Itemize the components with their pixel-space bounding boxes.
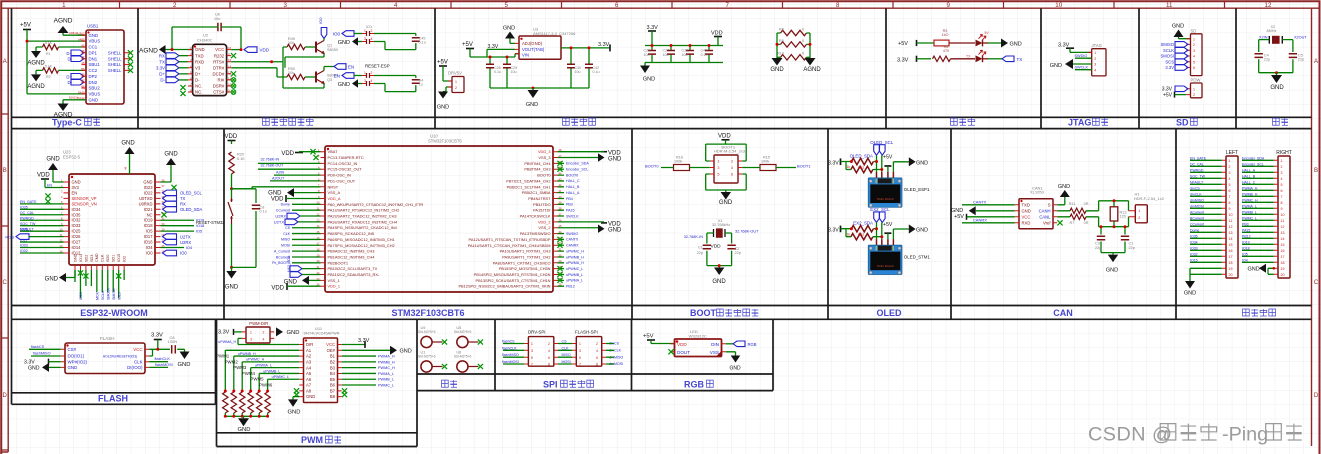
svg-text:uPWMC_L: uPWMC_L bbox=[566, 267, 583, 271]
svg-text:2: 2 bbox=[371, 71, 373, 75]
svg-text:3: 3 bbox=[1193, 49, 1195, 53]
wire VDD to pin2 loop bbox=[706, 140, 747, 161]
transistor Q3 S8050 bbox=[315, 72, 317, 83]
wire R8-R10 side rails bbox=[777, 33, 810, 58]
wire switch to ground node bbox=[231, 224, 233, 267]
resistor R21 pullup bbox=[851, 226, 873, 232]
svg-text:B5: B5 bbox=[330, 377, 336, 382]
svg-text:A2OUT: A2OUT bbox=[272, 176, 285, 180]
resistor R50 10k bbox=[287, 74, 305, 79]
svg-text:CANRX: CANRX bbox=[973, 218, 987, 223]
sheet row letters bbox=[1, 114, 8, 450]
svg-text:4: 4 bbox=[371, 37, 373, 41]
svg-text:RXD: RXD bbox=[195, 59, 204, 64]
svg-text:IO26: IO26 bbox=[72, 234, 82, 239]
svg-text:MOSI: MOSI bbox=[281, 244, 290, 248]
svg-text:PC13-TAMPER-RTC: PC13-TAMPER-RTC bbox=[328, 155, 364, 160]
svg-text:S: S bbox=[1048, 202, 1051, 207]
svg-text:RIGHT: RIGHT bbox=[1276, 150, 1292, 156]
ground GND (reset jumper) bbox=[352, 79, 358, 87]
svg-text:IO33: IO33 bbox=[72, 223, 82, 228]
svg-text:R11: R11 bbox=[1069, 202, 1076, 206]
no-connect DOUT bbox=[668, 349, 673, 354]
svg-text:R7: R7 bbox=[1070, 221, 1075, 225]
wire RTS to R49 bbox=[231, 47, 287, 62]
wire +5V to DRV5V bbox=[443, 66, 452, 92]
wire GND bottom to AGND bbox=[63, 100, 86, 104]
svg-text:3.3V: 3.3V bbox=[828, 228, 839, 234]
svg-text:C1: C1 bbox=[698, 245, 703, 249]
svg-text:PA4SPI1_NSSUSART2_CKADC12_IN4: PA4SPI1_NSSUSART2_CKADC12_IN4 bbox=[328, 225, 398, 230]
svg-text:3: 3 bbox=[718, 166, 720, 170]
svg-text:4: 4 bbox=[1094, 68, 1096, 72]
svg-text:20: 20 bbox=[1281, 273, 1285, 277]
wire R20 to NRST node bbox=[231, 174, 233, 189]
capacitor C6 100N bbox=[172, 345, 176, 353]
svg-text:22p: 22p bbox=[1298, 58, 1304, 62]
svg-text:S8050: S8050 bbox=[327, 48, 338, 52]
svg-text:GND: GND bbox=[72, 180, 81, 185]
svg-text:uPWMC_H: uPWMC_H bbox=[566, 249, 584, 253]
svg-text:IO0: IO0 bbox=[318, 17, 323, 24]
svg-text:PWM1: PWM1 bbox=[216, 354, 230, 359]
svg-text:120: 120 bbox=[1120, 214, 1126, 218]
svg-text:R8: R8 bbox=[779, 27, 784, 31]
svg-text:A2: A2 bbox=[306, 354, 312, 359]
svg-text:CANH: CANH bbox=[1039, 208, 1051, 213]
svg-text:SMOSI: SMOSI bbox=[1161, 54, 1175, 59]
wire LDO output rail bbox=[561, 47, 610, 49]
net flag 3.3V (POW) bbox=[1175, 86, 1188, 92]
svg-text:SWDIO: SWDIO bbox=[1075, 54, 1088, 58]
wire GND to right pin1 bbox=[161, 165, 172, 182]
svg-text:Std-M3*5+6: Std-M3*5+6 bbox=[418, 354, 436, 358]
svg-text:GND: GND bbox=[287, 330, 300, 336]
svg-text:PD1-OSC_OUT: PD1-OSC_OUT bbox=[328, 178, 356, 183]
svg-text:0.1u: 0.1u bbox=[260, 209, 267, 213]
svg-text:3: 3 bbox=[531, 349, 533, 353]
svg-text:STM32F103CBT6: STM32F103CBT6 bbox=[428, 139, 462, 144]
svg-text:AGND: AGND bbox=[27, 84, 45, 90]
svg-text:VCC: VCC bbox=[133, 347, 142, 352]
ground GND (resistor bank) bbox=[243, 416, 245, 418]
capacitor U6 10u bbox=[218, 23, 221, 31]
svg-text:DSR#: DSR# bbox=[213, 84, 225, 89]
termination network wires bbox=[1099, 201, 1129, 253]
svg-text:GND: GND bbox=[1270, 85, 1284, 91]
svg-text:17: 17 bbox=[1229, 255, 1233, 259]
svg-text:VSS_2: VSS_2 bbox=[538, 225, 550, 230]
resistor R22 pullup bbox=[851, 234, 873, 240]
svg-text:R1: R1 bbox=[46, 52, 51, 56]
ground GND (termination) bbox=[1112, 253, 1114, 255]
svg-text:A6: A6 bbox=[306, 377, 312, 382]
svg-text:5: 5 bbox=[531, 356, 533, 360]
svg-text:Dome: Dome bbox=[281, 203, 290, 207]
svg-text:SWCLK: SWCLK bbox=[1075, 66, 1089, 70]
svg-text:DN1: DN1 bbox=[89, 56, 98, 61]
svg-text:CMD: CMD bbox=[95, 253, 99, 262]
svg-text:SN74LVC245APWR: SN74LVC245APWR bbox=[303, 331, 339, 336]
net flag IO0 (ESP32) bbox=[163, 250, 177, 256]
svg-text:uPWMB_L: uPWMB_L bbox=[263, 369, 280, 373]
ground AGND (R network) bbox=[805, 58, 816, 66]
svg-text:1u: 1u bbox=[419, 82, 423, 86]
svg-text:Q3: Q3 bbox=[327, 78, 332, 82]
svg-text:IO4: IO4 bbox=[146, 245, 153, 250]
svg-text:CANTX: CANTX bbox=[566, 238, 579, 242]
wire GND to pin1 bbox=[53, 170, 64, 182]
svg-text:0.1u: 0.1u bbox=[701, 53, 708, 57]
svg-text:VBUS: VBUS bbox=[89, 39, 101, 44]
wire GND (RIGHT header) bbox=[1268, 268, 1274, 274]
svg-text:Vref: Vref bbox=[1043, 220, 1051, 225]
net flag EX2_SDA bbox=[880, 212, 886, 223]
svg-text:CANRX: CANRX bbox=[566, 244, 579, 248]
svg-text:VCC: VCC bbox=[215, 47, 224, 52]
svg-text:DRV5V: DRV5V bbox=[448, 70, 462, 75]
svg-text:TXD: TXD bbox=[1022, 202, 1030, 207]
svg-text:BOOT1: BOOT1 bbox=[797, 163, 811, 168]
svg-text:2: 2 bbox=[1193, 93, 1195, 97]
svg-text:SBU1: SBU1 bbox=[89, 62, 101, 67]
svg-text:ADJ(GND): ADJ(GND) bbox=[522, 41, 543, 46]
svg-text:PWM2: PWM2 bbox=[225, 359, 239, 364]
wire +5V to LED DO bbox=[651, 340, 675, 344]
net flag D+ (DP1) bbox=[71, 50, 84, 56]
wire Q3 emitter down bbox=[283, 62, 324, 88]
svg-text:GND: GND bbox=[1172, 23, 1184, 29]
wire R49 to Q1 base bbox=[305, 46, 316, 48]
svg-text:DP2: DP2 bbox=[89, 74, 98, 79]
net flag D+ (DP2) bbox=[71, 74, 84, 80]
svg-text:VDD: VDD bbox=[608, 150, 621, 156]
svg-text:HOLD#orRESET#(IO3): HOLD#orRESET#(IO3) bbox=[103, 355, 137, 359]
svg-text:D+: D+ bbox=[195, 71, 201, 76]
svg-text:GND: GND bbox=[89, 97, 99, 102]
no-connect marks ESP32 right bbox=[171, 185, 176, 190]
svg-text:IO5: IO5 bbox=[146, 229, 153, 234]
svg-text:PWM5: PWM5 bbox=[250, 377, 264, 382]
svg-text:+5V: +5V bbox=[883, 222, 893, 228]
svg-text:PA7SPI1_MOSIADC12_IN7TIM3_CH2: PA7SPI1_MOSIADC12_IN7TIM3_CH2 bbox=[328, 243, 395, 248]
ground GND (PWM-DIR) bbox=[276, 327, 283, 336]
svg-text:DIN: DIN bbox=[711, 342, 719, 347]
capacitor C1 22p (CAN) bbox=[1121, 236, 1129, 240]
svg-text:17: 17 bbox=[1281, 255, 1285, 259]
svg-text:CLK: CLK bbox=[134, 359, 143, 364]
svg-text:GND: GND bbox=[46, 157, 60, 163]
wire 3.3V to JTAG pin1 bbox=[1070, 48, 1092, 52]
svg-text:7: 7 bbox=[1281, 195, 1283, 199]
resistor R3 1kO bbox=[934, 40, 949, 46]
svg-text:flashMISO: flashMISO bbox=[33, 352, 51, 356]
svg-text:0.1u: 0.1u bbox=[593, 70, 600, 74]
svg-text:D-: D- bbox=[67, 80, 72, 85]
svg-text:A4: A4 bbox=[306, 365, 312, 370]
svg-text:SWCLK: SWCLK bbox=[566, 214, 579, 218]
svg-text:U0TXD: U0TXD bbox=[139, 196, 152, 201]
wire SWDIO bbox=[1075, 57, 1092, 59]
sheet ruler column ticks and numbers bbox=[120, 1, 1225, 8]
capacitor C40 10u bbox=[570, 48, 572, 88]
svg-text:10u: 10u bbox=[214, 17, 220, 21]
wire cap bank rails bbox=[645, 46, 723, 66]
svg-text:PA1USART2_RTSADC12_IN1TIM2_CH2: PA1USART2_RTSADC12_IN1TIM2_CH2 bbox=[328, 208, 400, 213]
svg-text:PB9TIM4_CH4: PB9TIM4_CH4 bbox=[524, 161, 551, 166]
svg-text:SHELL: SHELL bbox=[108, 56, 122, 61]
svg-text:VDD: VDD bbox=[711, 244, 722, 250]
svg-text:CANTX: CANTX bbox=[973, 200, 987, 205]
svg-text:4: 4 bbox=[1281, 177, 1283, 181]
svg-text:5V: 5V bbox=[985, 31, 990, 35]
svg-text:GND: GND bbox=[643, 77, 655, 83]
svg-text:R232: R232 bbox=[214, 53, 225, 58]
resistor R9 0 bbox=[781, 42, 807, 47]
svg-text:BOOT: BOOT bbox=[690, 308, 717, 318]
svg-text:EN: EN bbox=[348, 64, 354, 69]
svg-text:B6: B6 bbox=[81, 73, 85, 77]
svg-text:2: 2 bbox=[173, 2, 177, 9]
net flags SMISO SCLK SMOSI SCS 3.3V (SD) bbox=[1175, 42, 1188, 48]
svg-text:AGND: AGND bbox=[139, 48, 158, 55]
net flag D- (DN1) bbox=[71, 56, 84, 62]
svg-text:3: 3 bbox=[1094, 63, 1096, 67]
svg-text:PA5SPI1_SCKADC12_IN5: PA5SPI1_SCKADC12_IN5 bbox=[328, 231, 374, 236]
svg-text:18: 18 bbox=[1281, 261, 1285, 265]
svg-text:GND: GND bbox=[288, 410, 301, 416]
svg-text:1: 1 bbox=[62, 2, 66, 9]
svg-text:GND: GND bbox=[1050, 63, 1062, 69]
ground GND (DRV5V) bbox=[438, 92, 448, 99]
svg-text:PB4: PB4 bbox=[566, 197, 573, 201]
svg-text:15: 15 bbox=[1281, 243, 1285, 247]
svg-text:20: 20 bbox=[1229, 273, 1233, 277]
svg-text:uPWMA_L: uPWMA_L bbox=[566, 279, 583, 283]
svg-text:IO27: IO27 bbox=[72, 240, 82, 245]
svg-text:SHELL: SHELL bbox=[108, 50, 122, 55]
svg-text:IO0: IO0 bbox=[333, 32, 341, 37]
svg-text:AGND: AGND bbox=[803, 67, 821, 73]
svg-text:B1: B1 bbox=[330, 354, 336, 359]
svg-text:PC15-OSC32_OUT: PC15-OSC32_OUT bbox=[328, 167, 363, 172]
svg-text:3.3V: 3.3V bbox=[151, 333, 163, 339]
svg-text:GND: GND bbox=[143, 180, 152, 185]
svg-text:3: 3 bbox=[364, 37, 366, 41]
wire R4 to LED2 (dark red) bbox=[951, 58, 976, 60]
svg-text:3: 3 bbox=[364, 79, 366, 83]
svg-text:CC1: CC1 bbox=[89, 45, 98, 50]
svg-text:EN: EN bbox=[334, 74, 340, 79]
svg-text:1k: 1k bbox=[847, 232, 851, 236]
svg-text:TX: TX bbox=[966, 54, 971, 58]
svg-text:U2RX: U2RX bbox=[275, 214, 286, 219]
svg-text:10: 10 bbox=[1281, 213, 1285, 217]
svg-text:RXD: RXD bbox=[1022, 220, 1031, 225]
svg-text:PA2USART2_TXADC12_IN2TIM2_CH3: PA2USART2_TXADC12_IN2TIM2_CH3 bbox=[328, 214, 397, 219]
svg-text:AGND: AGND bbox=[54, 111, 73, 118]
svg-text:16: 16 bbox=[1229, 249, 1233, 253]
wire crystal loop bbox=[1259, 40, 1293, 73]
svg-text:10u: 10u bbox=[511, 70, 517, 74]
section label standoffs bbox=[442, 380, 457, 387]
svg-text:uPWMC_H: uPWMC_H bbox=[246, 358, 264, 362]
svg-text:PB1ADC12_IN9TIM3_CH4: PB1ADC12_IN9TIM3_CH4 bbox=[328, 254, 376, 259]
svg-text:R22: R22 bbox=[858, 233, 864, 237]
svg-text:5: 5 bbox=[505, 2, 509, 9]
svg-text:DIR: DIR bbox=[306, 342, 313, 347]
svg-text:HALL_C: HALL_C bbox=[566, 179, 580, 183]
svg-text:uPWMA_H: uPWMA_H bbox=[218, 340, 236, 344]
ground GND (OLED) bbox=[893, 229, 908, 239]
svg-text:PA14TCKSWCLK: PA14TCKSWCLK bbox=[520, 214, 551, 219]
no-connect marks NC pins bbox=[180, 85, 185, 90]
svg-text:SENSOR_VN: SENSOR_VN bbox=[72, 201, 97, 206]
IC U3 AMS1117-3.3 bbox=[519, 36, 561, 59]
svg-text:PWM4: PWM4 bbox=[242, 371, 256, 376]
svg-text:RGB: RGB bbox=[5, 234, 14, 239]
svg-text:PB11I2C2_SDAUSART3_RX-: PB11I2C2_SDAUSART3_RX- bbox=[328, 272, 380, 277]
svg-text:A2IN: A2IN bbox=[276, 171, 285, 175]
svg-text:2: 2 bbox=[596, 342, 598, 346]
svg-text:GND: GND bbox=[400, 348, 412, 354]
wire GND to SD pin1 bbox=[1179, 37, 1191, 39]
svg-text:NRST: NRST bbox=[328, 184, 339, 189]
ground GND (JTAG) bbox=[1065, 59, 1073, 69]
capacitor C3 22p (CAN) bbox=[1097, 236, 1105, 240]
svg-text:flashCS: flashCS bbox=[31, 345, 45, 349]
svg-text:IO0: IO0 bbox=[146, 250, 153, 255]
resistor R13 120 (termination) bbox=[1110, 207, 1118, 221]
svg-text:5.1K: 5.1K bbox=[45, 41, 53, 45]
svg-text:B6: B6 bbox=[330, 383, 336, 388]
wire pin4 to BOOT1 bbox=[742, 167, 796, 169]
svg-text:FLASH: FLASH bbox=[100, 336, 115, 341]
svg-text:MISO: MISO bbox=[281, 238, 290, 242]
svg-text:4: 4 bbox=[371, 79, 373, 83]
svg-text:PA0_WKUPUSART2_CTSADC12_IN0TIM: PA0_WKUPUSART2_CTSADC12_IN0TIM2_CH1_ETR bbox=[328, 202, 424, 207]
svg-text:6: 6 bbox=[615, 2, 619, 9]
node VBUS junction bbox=[26, 40, 29, 43]
wire jumper to U4 loop bbox=[374, 76, 416, 92]
svg-text:ESP32-S: ESP32-S bbox=[63, 154, 80, 159]
svg-text:CLK: CLK bbox=[101, 254, 105, 262]
svg-text:DO(IO1): DO(IO1) bbox=[68, 354, 85, 359]
svg-text:PA8USART1_CKTIM1_CH1MCO: PA8USART1_CKTIM1_CH1MCO bbox=[493, 260, 551, 265]
wire VCC loop around U6 bbox=[172, 27, 241, 50]
svg-text:GND: GND bbox=[1058, 184, 1070, 190]
svg-text:7: 7 bbox=[726, 2, 730, 9]
svg-text:PB4NJTRST: PB4NJTRST bbox=[528, 196, 551, 201]
svg-text:1: 1 bbox=[1138, 209, 1140, 213]
svg-text:Encoder_SCL: Encoder_SCL bbox=[566, 168, 588, 172]
svg-text:3.3V: 3.3V bbox=[598, 42, 610, 48]
svg-text:IO17: IO17 bbox=[144, 234, 154, 239]
svg-text:5.1K: 5.1K bbox=[237, 157, 245, 161]
svg-text:A3: A3 bbox=[306, 359, 312, 364]
LED TX red bbox=[976, 55, 983, 62]
wire DTR to R50 bbox=[231, 68, 287, 77]
svg-text:3.3V: 3.3V bbox=[218, 329, 230, 335]
svg-text:IO35: IO35 bbox=[72, 212, 82, 217]
svg-text:OE#: OE# bbox=[327, 348, 336, 353]
wire GND to pin3 bbox=[1073, 63, 1092, 65]
wire GND loop bottom bbox=[706, 174, 747, 192]
svg-text:0R: 0R bbox=[1084, 221, 1089, 225]
svg-text:2: 2 bbox=[1229, 165, 1231, 169]
svg-text:IO15: IO15 bbox=[117, 292, 121, 300]
svg-text:6: 6 bbox=[1281, 189, 1283, 193]
svg-text:D-: D- bbox=[160, 78, 165, 83]
svg-text:GND: GND bbox=[121, 141, 135, 147]
svg-text:GND: GND bbox=[89, 33, 99, 38]
svg-text:uPWMB_H: uPWMB_H bbox=[566, 255, 584, 259]
svg-text:18: 18 bbox=[1229, 261, 1233, 265]
svg-text:EN: EN bbox=[47, 183, 52, 187]
svg-text:GND: GND bbox=[608, 157, 622, 163]
svg-text:R22: R22 bbox=[858, 166, 864, 170]
svg-text:PA13TMSSWDIO: PA13TMSSWDIO bbox=[520, 231, 551, 236]
svg-text:PB5I2C1_SMBA: PB5I2C1_SMBA bbox=[522, 190, 551, 195]
svg-text:1: 1 bbox=[718, 160, 720, 164]
capacitor C43 0.1u bbox=[708, 46, 710, 63]
svg-text:B8: B8 bbox=[330, 394, 336, 399]
svg-text:B7: B7 bbox=[81, 79, 85, 83]
resistor R20 5.1K bbox=[229, 152, 234, 174]
svg-text:DTR#: DTR# bbox=[213, 65, 225, 70]
svg-text:R20: R20 bbox=[237, 153, 244, 157]
ground AGND under R2 bbox=[31, 74, 41, 81]
wire jumper to C45 loop bbox=[374, 34, 416, 50]
svg-text:TX: TX bbox=[180, 196, 186, 201]
svg-text:PB12: PB12 bbox=[566, 285, 575, 289]
svg-text:C: C bbox=[1314, 280, 1319, 286]
ground GND (LDO rail) bbox=[532, 88, 534, 90]
svg-text:+5V: +5V bbox=[20, 23, 31, 29]
svg-text:IO0: IO0 bbox=[180, 251, 187, 256]
connector USB1 Type-C bbox=[86, 30, 124, 104]
svg-text:GND: GND bbox=[1247, 266, 1259, 272]
svg-text:NC: NC bbox=[147, 212, 153, 217]
svg-text:11: 11 bbox=[1166, 2, 1173, 9]
svg-text:B7: B7 bbox=[330, 388, 336, 393]
svg-text:GND: GND bbox=[195, 47, 205, 52]
svg-text:IO34: IO34 bbox=[72, 207, 82, 212]
no-connect marks ESP32 bottom bbox=[78, 270, 83, 275]
wire BOOT0 to pin3 bbox=[661, 167, 710, 169]
svg-text:SHELL: SHELL bbox=[108, 62, 122, 67]
svg-text:DP1: DP1 bbox=[89, 50, 98, 55]
svg-text:OLED_ESP1: OLED_ESP1 bbox=[904, 187, 930, 192]
svg-text:49: 49 bbox=[124, 166, 128, 170]
svg-text:GND: GND bbox=[45, 276, 59, 282]
wire +5V to VBUS rails bbox=[27, 30, 86, 94]
ground GND (X1) bbox=[718, 266, 720, 268]
svg-text:RESET-ESP: RESET-ESP bbox=[365, 64, 390, 69]
transistor Q1 S8050 bbox=[315, 42, 317, 53]
wire resistor bank bottom rail bbox=[225, 413, 267, 416]
svg-text:1: 1 bbox=[579, 342, 581, 346]
svg-text:2: 2 bbox=[1138, 216, 1140, 220]
svg-text:D+: D+ bbox=[66, 74, 72, 79]
svg-text:VDD: VDD bbox=[260, 48, 270, 53]
svg-text:12: 12 bbox=[1229, 225, 1233, 229]
svg-text:0: 0 bbox=[802, 39, 804, 43]
svg-text:U2TX: U2TX bbox=[274, 219, 285, 224]
svg-text:CLK: CLK bbox=[283, 232, 290, 236]
ground GND (cap bank) bbox=[640, 66, 650, 74]
svg-text:D: D bbox=[1314, 393, 1319, 399]
